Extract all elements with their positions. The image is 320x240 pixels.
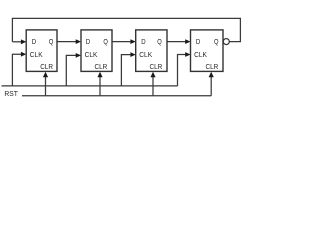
svg-text:CLK: CLK [194,51,207,59]
svg-text:D: D [196,38,200,46]
svg-text:Q: Q [49,38,54,46]
svg-text:D: D [141,38,145,46]
svg-text:D: D [86,38,90,46]
svg-text:RST: RST [4,89,18,98]
svg-text:CLR: CLR [95,63,108,71]
svg-text:CLK: CLK [85,51,98,59]
svg-text:CLK: CLK [30,51,43,59]
svg-text:CLR: CLR [206,63,219,71]
svg-text:D: D [32,38,36,46]
svg-text:CLR: CLR [40,63,53,71]
svg-text:Q: Q [103,38,108,46]
svg-text:Q: Q [157,38,162,46]
svg-text:CLR: CLR [150,63,163,71]
svg-text:CLK: CLK [139,51,152,59]
svg-text:Q: Q [214,38,219,46]
